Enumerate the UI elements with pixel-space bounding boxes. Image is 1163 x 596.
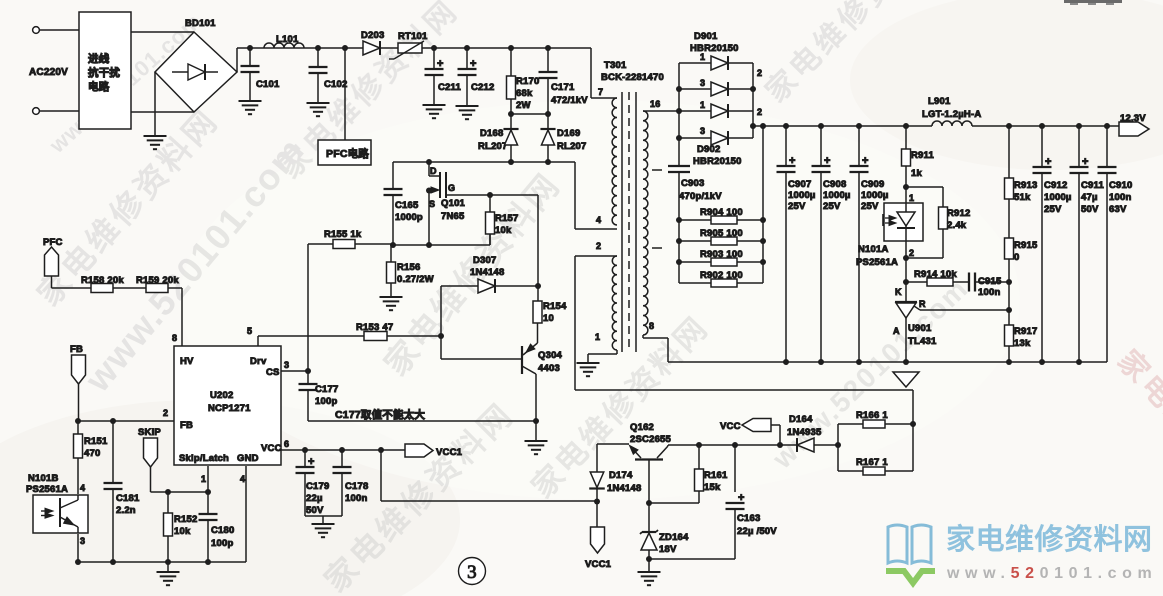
diode D174 bbox=[589, 444, 641, 501]
transformer T301 aux winding 2-1 bbox=[575, 256, 617, 354]
svg-text:PS2561A: PS2561A bbox=[26, 484, 68, 495]
svg-text:C177取值不能太大: C177取值不能太大 bbox=[335, 408, 425, 421]
ground under bridge bbox=[144, 136, 167, 149]
resistor R170 bbox=[507, 48, 540, 114]
svg-text:1N4935: 1N4935 bbox=[787, 427, 822, 438]
wire bridge output riser bbox=[236, 48, 238, 72]
wire Q304 collector down bbox=[535, 374, 537, 421]
node snubber right R904 bbox=[760, 217, 766, 223]
svg-text:R156: R156 bbox=[397, 262, 421, 273]
svg-text:S: S bbox=[429, 199, 435, 209]
svg-text:D203: D203 bbox=[361, 30, 385, 41]
capacitor C181 bbox=[104, 421, 141, 562]
svg-text:C903: C903 bbox=[681, 178, 705, 189]
diode D902a bbox=[679, 100, 753, 118]
wire pin16 to rectifier bbox=[643, 110, 679, 112]
resistor R156 bbox=[387, 245, 434, 297]
wire U901 anode down bbox=[905, 318, 907, 362]
svg-text:1000p: 1000p bbox=[395, 212, 423, 223]
svg-text:U901: U901 bbox=[908, 323, 932, 334]
svg-text:5: 5 bbox=[247, 326, 252, 336]
wire CS pin bbox=[281, 370, 308, 372]
node D169 bottom bbox=[545, 159, 551, 165]
svg-text:2: 2 bbox=[909, 248, 914, 258]
top edge artifact bbox=[1064, 0, 1122, 3]
wire drain line bbox=[393, 161, 575, 163]
diode D164 bbox=[787, 414, 838, 452]
svg-text:50V: 50V bbox=[1081, 204, 1099, 215]
node C907 top bbox=[783, 123, 789, 129]
resistor R915 bbox=[1005, 238, 1039, 282]
label SKIP bbox=[138, 427, 161, 438]
svg-text:进线: 进线 bbox=[88, 52, 110, 65]
svg-text:T301: T301 bbox=[604, 60, 627, 71]
node snubber bus top bbox=[760, 123, 766, 129]
node FB C181 junction bbox=[110, 418, 116, 424]
svg-text:D901: D901 bbox=[694, 31, 718, 42]
snubber right bus bbox=[762, 126, 764, 283]
svg-text:R155 1k: R155 1k bbox=[324, 229, 362, 240]
wire zener to C163 bbox=[649, 558, 735, 560]
diode D169 bbox=[540, 114, 586, 162]
wire R159 to HV pin bbox=[181, 288, 183, 346]
IC U202 NCP1271 bbox=[174, 346, 282, 465]
capacitor C102 bbox=[309, 48, 348, 103]
wire R154 to Q304 emitter bbox=[523, 323, 538, 355]
capacitor C915 bbox=[969, 273, 1009, 299]
capacitor C163 bbox=[726, 445, 778, 559]
inductor L101 bbox=[264, 34, 304, 48]
svg-text:LGT-1.2µH-A: LGT-1.2µH-A bbox=[922, 109, 981, 120]
capacitor C101 bbox=[241, 48, 281, 101]
resistor R903 bbox=[679, 249, 763, 266]
node C180 bottom bbox=[205, 559, 211, 565]
node VCC junction bbox=[777, 442, 783, 448]
node cathode bus to output bbox=[750, 123, 756, 129]
node Q101 source bbox=[426, 188, 432, 194]
wire C177 to Q304 collector bbox=[308, 420, 536, 422]
page marker 3 bbox=[459, 558, 486, 585]
wire to PFC box bbox=[344, 48, 346, 140]
node R161 top bbox=[696, 442, 702, 448]
svg-text:51k: 51k bbox=[1014, 192, 1031, 203]
svg-text:D169: D169 bbox=[557, 128, 581, 139]
svg-text:家电维修资料网: 家电维修资料网 bbox=[946, 522, 1153, 556]
wire skip stem bbox=[151, 466, 209, 492]
capacitor C908 bbox=[812, 126, 851, 362]
node N101A pin2 junction bbox=[903, 255, 909, 261]
svg-text:R157: R157 bbox=[495, 213, 519, 224]
node C912 bottom bbox=[1039, 359, 1045, 365]
node D164 to R166 R167 bbox=[835, 442, 841, 448]
svg-text:1: 1 bbox=[700, 52, 705, 62]
resistor R153 bbox=[356, 322, 393, 341]
svg-text:L901: L901 bbox=[928, 96, 951, 107]
ground under C179 C178 bbox=[312, 524, 335, 537]
svg-text:电路: 电路 bbox=[88, 80, 110, 93]
svg-text:R152: R152 bbox=[174, 514, 198, 525]
rectifier cathode bus bbox=[753, 63, 762, 138]
wire VCC1 to D174 node bbox=[381, 450, 597, 501]
resistor R159 bbox=[136, 275, 182, 293]
thermistor RT101 bbox=[389, 31, 428, 59]
capacitor C180 bbox=[199, 492, 235, 562]
resistor R905 bbox=[679, 228, 763, 245]
svg-text:1000µ: 1000µ bbox=[788, 190, 816, 201]
wire R911 to R912 bbox=[906, 187, 943, 207]
wire to ground bbox=[535, 421, 537, 441]
wire collector line bbox=[668, 444, 797, 446]
svg-text:470: 470 bbox=[84, 448, 100, 459]
node snubber left R903 bbox=[676, 259, 682, 265]
svg-text:R911: R911 bbox=[911, 150, 935, 161]
svg-text:C909: C909 bbox=[861, 179, 885, 190]
connector FB bbox=[72, 355, 86, 384]
node R170 top bbox=[508, 45, 514, 51]
label PFC bbox=[43, 237, 63, 248]
node R152 top bbox=[165, 489, 171, 495]
node C102 junction bbox=[315, 45, 321, 51]
node C212 junction bbox=[464, 45, 470, 51]
label pin 2 bbox=[163, 408, 168, 418]
node C211 junction bbox=[431, 45, 437, 51]
svg-text:A: A bbox=[893, 326, 900, 336]
wire R912 bottom bbox=[906, 229, 943, 258]
svg-text:3: 3 bbox=[700, 126, 705, 136]
svg-text:R170: R170 bbox=[516, 76, 540, 87]
svg-text:13k: 13k bbox=[1014, 338, 1031, 349]
transformer T301 primary winding 7-4 bbox=[612, 98, 617, 225]
node D307 cathode junction bbox=[535, 283, 541, 289]
node R153 right junction bbox=[438, 333, 444, 339]
wire VCC line bbox=[281, 449, 405, 451]
wire gate vertical to D307 bbox=[537, 195, 539, 301]
svg-text:D168: D168 bbox=[480, 128, 504, 139]
optocoupler N101B PS2561A bbox=[26, 473, 88, 546]
svg-text:C910: C910 bbox=[1109, 180, 1133, 191]
wire drain to transformer pin4 bbox=[575, 162, 617, 229]
node C181 bottom bbox=[110, 559, 116, 565]
svg-text:4: 4 bbox=[80, 483, 85, 493]
wire output ground rail bbox=[668, 361, 1107, 363]
label pin 1 bbox=[201, 474, 206, 484]
node snubber left R904 bbox=[676, 217, 682, 223]
svg-text:2: 2 bbox=[757, 107, 762, 117]
line-filter box 进线抗干扰电路 bbox=[79, 12, 131, 129]
svg-text:C211: C211 bbox=[438, 82, 462, 93]
svg-text:PFC电路: PFC电路 bbox=[326, 147, 369, 160]
wire FB line bbox=[78, 420, 174, 422]
svg-text:8: 8 bbox=[649, 321, 654, 331]
optocoupler N101A PS2561A bbox=[856, 187, 923, 268]
capacitor C165 bbox=[384, 162, 423, 245]
svg-text:C163: C163 bbox=[737, 513, 761, 524]
label 12.3V bbox=[1120, 113, 1146, 124]
capacitor C171 bbox=[539, 48, 589, 114]
rectifier anode bus bbox=[678, 63, 680, 138]
PFC circuit box PFC电路 bbox=[318, 140, 371, 165]
node cathode row2 bbox=[750, 86, 756, 92]
resistor R913 bbox=[1005, 126, 1038, 238]
node Q162 base junction bbox=[646, 500, 652, 506]
svg-text:1: 1 bbox=[595, 332, 600, 342]
connector VCC bbox=[742, 419, 780, 446]
node C911 bottom bbox=[1076, 359, 1082, 365]
resistor R902 bbox=[679, 270, 763, 287]
wire Q101 gate line bbox=[446, 194, 538, 196]
svg-text:C911: C911 bbox=[1081, 180, 1105, 191]
svg-text:Q101: Q101 bbox=[441, 198, 466, 209]
svg-text:D902: D902 bbox=[697, 144, 721, 155]
svg-text:10k: 10k bbox=[495, 225, 512, 236]
svg-text:3: 3 bbox=[284, 360, 289, 370]
svg-text:C165: C165 bbox=[395, 200, 419, 211]
ground under C211 bbox=[423, 105, 446, 118]
svg-text:C177: C177 bbox=[315, 384, 339, 395]
node snubber right R905 bbox=[760, 238, 766, 244]
svg-text:C915: C915 bbox=[978, 276, 1002, 287]
label pin 8 bbox=[172, 333, 177, 343]
svg-text:4: 4 bbox=[596, 215, 601, 225]
svg-text:1000µ: 1000µ bbox=[861, 190, 889, 201]
svg-text:16: 16 bbox=[650, 99, 660, 109]
node R157 top bbox=[487, 192, 493, 198]
node TL431 ref junction bbox=[1006, 307, 1012, 313]
wire bus to transformer pin7 bbox=[591, 48, 617, 98]
capacitor C177 bbox=[299, 371, 339, 421]
node anode row2 bbox=[676, 86, 682, 92]
svg-text:抗干扰: 抗干扰 bbox=[88, 66, 120, 79]
resistor R158 bbox=[81, 275, 146, 293]
label D901 bbox=[690, 31, 739, 54]
svg-text:Drv: Drv bbox=[250, 356, 267, 367]
svg-text:N101A: N101A bbox=[858, 244, 889, 255]
node R913 top bbox=[1006, 123, 1012, 129]
node rail left bbox=[75, 559, 81, 565]
capacitor C178 bbox=[333, 450, 369, 516]
svg-text:RL207: RL207 bbox=[478, 141, 508, 152]
node D174 bottom junction bbox=[594, 499, 600, 505]
svg-text:SKIP: SKIP bbox=[138, 427, 161, 438]
label pin 4 bbox=[596, 215, 601, 225]
node C911 top bbox=[1076, 123, 1082, 129]
resistor R167 bbox=[838, 424, 913, 475]
wire main bus primary bbox=[237, 47, 591, 49]
zener diode ZD164 bbox=[640, 503, 689, 572]
wire clamp junction bbox=[511, 113, 548, 115]
node PFC tap bbox=[342, 45, 348, 51]
transistor Q101 7N65 bbox=[429, 162, 466, 222]
svg-text:Q304: Q304 bbox=[538, 350, 563, 361]
svg-text:10k: 10k bbox=[174, 526, 191, 537]
svg-text:2.2n: 2.2n bbox=[116, 505, 136, 516]
node C908 bottom bbox=[818, 359, 824, 365]
node C912 top bbox=[1039, 123, 1045, 129]
svg-text:1000µ: 1000µ bbox=[1044, 192, 1072, 203]
svg-text:68k: 68k bbox=[516, 88, 533, 99]
node C179 top bbox=[302, 447, 308, 453]
node C907 bottom bbox=[783, 359, 789, 365]
label pin 2 bbox=[596, 241, 601, 251]
connector VCC1 down bbox=[585, 501, 612, 570]
capacitor C910 bbox=[1098, 126, 1133, 362]
node anode row3 bbox=[676, 108, 682, 114]
svg-text:R917: R917 bbox=[1014, 326, 1038, 337]
svg-text:C912: C912 bbox=[1044, 180, 1068, 191]
label FB bbox=[70, 344, 83, 355]
svg-text:0.27/2W: 0.27/2W bbox=[397, 274, 434, 285]
svg-text:VCC1: VCC1 bbox=[436, 447, 463, 458]
svg-text:2SC2655: 2SC2655 bbox=[630, 434, 672, 445]
svg-text:TL431: TL431 bbox=[908, 336, 937, 347]
diode D203 bbox=[361, 30, 385, 55]
svg-text:50V: 50V bbox=[306, 505, 324, 516]
label pin 6 bbox=[284, 439, 289, 449]
svg-text:BCK-2281470: BCK-2281470 bbox=[601, 72, 664, 83]
svg-text:R913: R913 bbox=[1014, 180, 1038, 191]
label pin 5 bbox=[247, 326, 252, 336]
svg-text:R915: R915 bbox=[1014, 240, 1038, 251]
diode D901b bbox=[679, 78, 753, 96]
node C178 top bbox=[339, 447, 345, 453]
diode D902b bbox=[679, 126, 753, 145]
node AC input terminal bottom bbox=[33, 108, 79, 115]
bridge rectifier BD101 bbox=[155, 18, 237, 112]
svg-text:RT101: RT101 bbox=[398, 31, 428, 42]
svg-text:FB: FB bbox=[70, 344, 83, 355]
svg-text:CS: CS bbox=[266, 367, 280, 378]
svg-text:Q162: Q162 bbox=[630, 422, 654, 433]
svg-text:www.520101.com: www.520101.com bbox=[946, 565, 1157, 582]
label pin 4 bbox=[240, 474, 245, 484]
svg-text:D: D bbox=[430, 166, 437, 176]
node C101 junction bbox=[247, 45, 253, 51]
label pin 7 bbox=[598, 87, 603, 97]
svg-text:PFC: PFC bbox=[43, 237, 63, 248]
node ZD164 C163 junction bbox=[646, 556, 652, 562]
svg-text:C907: C907 bbox=[788, 179, 812, 190]
node R911 bottom junction bbox=[903, 184, 909, 190]
wire Drv pin riser bbox=[257, 336, 259, 346]
wire caps to ground bbox=[305, 516, 342, 524]
svg-text:R: R bbox=[919, 299, 926, 309]
node R166 right junction bbox=[910, 421, 916, 427]
ground under R156 bbox=[380, 297, 403, 310]
svg-text:Skip/Latch: Skip/Latch bbox=[179, 453, 229, 464]
svg-text:100n: 100n bbox=[978, 287, 1000, 298]
svg-text:HBR20150: HBR20150 bbox=[690, 43, 739, 54]
svg-text:10: 10 bbox=[543, 313, 554, 324]
wire pin4 GND lead bbox=[245, 466, 247, 562]
svg-text:N101B: N101B bbox=[28, 473, 59, 484]
label VCC bbox=[720, 421, 741, 432]
svg-text:1N4148: 1N4148 bbox=[607, 483, 641, 494]
ground under C102 bbox=[307, 103, 330, 116]
capacitor C211 bbox=[425, 48, 462, 105]
resistor R161 bbox=[649, 445, 728, 503]
svg-text:1k: 1k bbox=[911, 168, 922, 179]
secondary tap stub upper bbox=[652, 169, 662, 171]
svg-text:22µ /50V: 22µ /50V bbox=[737, 526, 777, 537]
svg-text:100n: 100n bbox=[345, 493, 367, 504]
label K bbox=[895, 287, 902, 297]
node C908 top bbox=[818, 123, 824, 129]
svg-text:C102: C102 bbox=[324, 79, 348, 90]
resistor R166 bbox=[838, 410, 913, 445]
node R915 bottom junction bbox=[1006, 279, 1012, 285]
svg-text:100p: 100p bbox=[211, 538, 233, 549]
svg-text:100n: 100n bbox=[1109, 192, 1131, 203]
wire filter to bridge top bbox=[131, 31, 194, 33]
diode D307 bbox=[441, 255, 538, 293]
wire bridge left vertex to ground bbox=[154, 72, 156, 136]
label AC220V bbox=[29, 67, 68, 78]
svg-text:25V: 25V bbox=[823, 201, 841, 212]
ground under aux winding bbox=[577, 363, 600, 376]
capacitor C212 bbox=[458, 48, 495, 106]
ground under Q304 bbox=[525, 441, 548, 454]
svg-text:1N4148: 1N4148 bbox=[470, 267, 504, 278]
connector 12.3V output bbox=[1119, 122, 1149, 136]
transformer T301 label bbox=[601, 60, 664, 83]
svg-text:RL207: RL207 bbox=[557, 141, 587, 152]
diode D168 bbox=[478, 114, 519, 162]
svg-text:1000µ: 1000µ bbox=[823, 190, 851, 201]
logo book icon bbox=[888, 525, 931, 563]
svg-text:4403: 4403 bbox=[538, 363, 560, 374]
resistor R152 bbox=[164, 492, 198, 562]
svg-text:1: 1 bbox=[909, 193, 914, 203]
svg-text:ZD164: ZD164 bbox=[659, 532, 689, 543]
node snubber right R903 bbox=[760, 259, 766, 265]
node C909 bottom bbox=[856, 359, 862, 365]
svg-text:VCC1: VCC1 bbox=[585, 559, 612, 570]
svg-text:FB: FB bbox=[180, 420, 193, 431]
svg-text:2: 2 bbox=[757, 68, 762, 78]
connector PFC input bbox=[45, 247, 59, 276]
wire aux pin1 to ground bbox=[587, 354, 589, 363]
node R152 bottom bbox=[165, 559, 171, 565]
svg-text:G: G bbox=[448, 183, 455, 193]
svg-text:C171: C171 bbox=[551, 82, 575, 93]
node source rail junction bbox=[426, 242, 432, 248]
wire drv node to D307 anode bbox=[440, 286, 442, 336]
svg-text:HBR20150: HBR20150 bbox=[693, 156, 742, 167]
svg-text:1: 1 bbox=[700, 100, 705, 110]
svg-text:2: 2 bbox=[596, 241, 601, 251]
svg-text:15k: 15k bbox=[704, 482, 721, 493]
wire divider node bbox=[1008, 282, 1010, 310]
diode D901a bbox=[679, 52, 753, 70]
secondary tap stub lower bbox=[652, 247, 662, 249]
svg-text:2.4k: 2.4k bbox=[947, 220, 967, 231]
label pin 1 bbox=[595, 332, 600, 342]
svg-text:0: 0 bbox=[1014, 252, 1019, 263]
svg-text:D307: D307 bbox=[473, 255, 497, 266]
ground under C101 bbox=[239, 101, 262, 114]
svg-text:PS2561A: PS2561A bbox=[856, 257, 898, 268]
svg-text:472/1kV: 472/1kV bbox=[551, 95, 588, 106]
wire bottom rail bbox=[78, 561, 246, 563]
svg-text:8: 8 bbox=[172, 333, 177, 343]
svg-text:C178: C178 bbox=[345, 481, 369, 492]
wire opto to TL431 bbox=[905, 258, 907, 302]
svg-text:7: 7 bbox=[598, 87, 603, 97]
capacitor C179 bbox=[296, 450, 330, 516]
wire Q101 source down bbox=[428, 190, 430, 245]
inductor L901 bbox=[922, 96, 981, 126]
node AC input terminal top bbox=[33, 27, 79, 34]
